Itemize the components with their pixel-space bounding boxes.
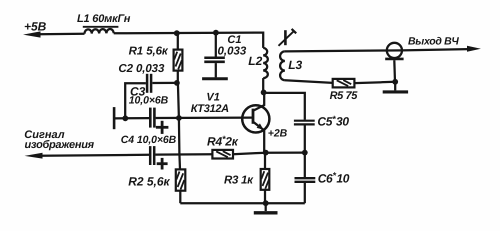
svg-text:R5 75: R5 75 bbox=[330, 90, 359, 102]
svg-text:L3: L3 bbox=[288, 58, 302, 72]
svg-text:изображения: изображения bbox=[25, 139, 95, 151]
svg-text:C1: C1 bbox=[227, 34, 241, 46]
svg-text:КТ312А: КТ312А bbox=[191, 103, 229, 115]
svg-text:C4 10,0×6В: C4 10,0×6В bbox=[121, 134, 177, 146]
svg-text:R3 1к: R3 1к bbox=[224, 174, 254, 186]
svg-text:V1: V1 bbox=[206, 92, 219, 104]
svg-text:C5* 30: C5* 30 bbox=[317, 114, 349, 129]
svg-text:C6* 10: C6* 10 bbox=[318, 171, 350, 186]
svg-text:C2 0,033: C2 0,033 bbox=[118, 63, 165, 75]
svg-text:R2 5,6к: R2 5,6к bbox=[128, 175, 170, 189]
svg-text:+5В: +5В bbox=[24, 19, 47, 33]
svg-text:L2: L2 bbox=[248, 54, 262, 68]
svg-text:Выход ВЧ: Выход ВЧ bbox=[408, 36, 459, 48]
svg-text:R1 5,6к: R1 5,6к bbox=[129, 45, 169, 57]
svg-text:0,033: 0,033 bbox=[218, 46, 247, 58]
svg-text:+2В: +2В bbox=[268, 128, 288, 140]
svg-text:L1 60мкГн: L1 60мкГн bbox=[77, 13, 131, 25]
svg-text:10,0×6В: 10,0×6В bbox=[129, 94, 169, 106]
svg-text:R4*2к: R4*2к bbox=[207, 134, 239, 149]
